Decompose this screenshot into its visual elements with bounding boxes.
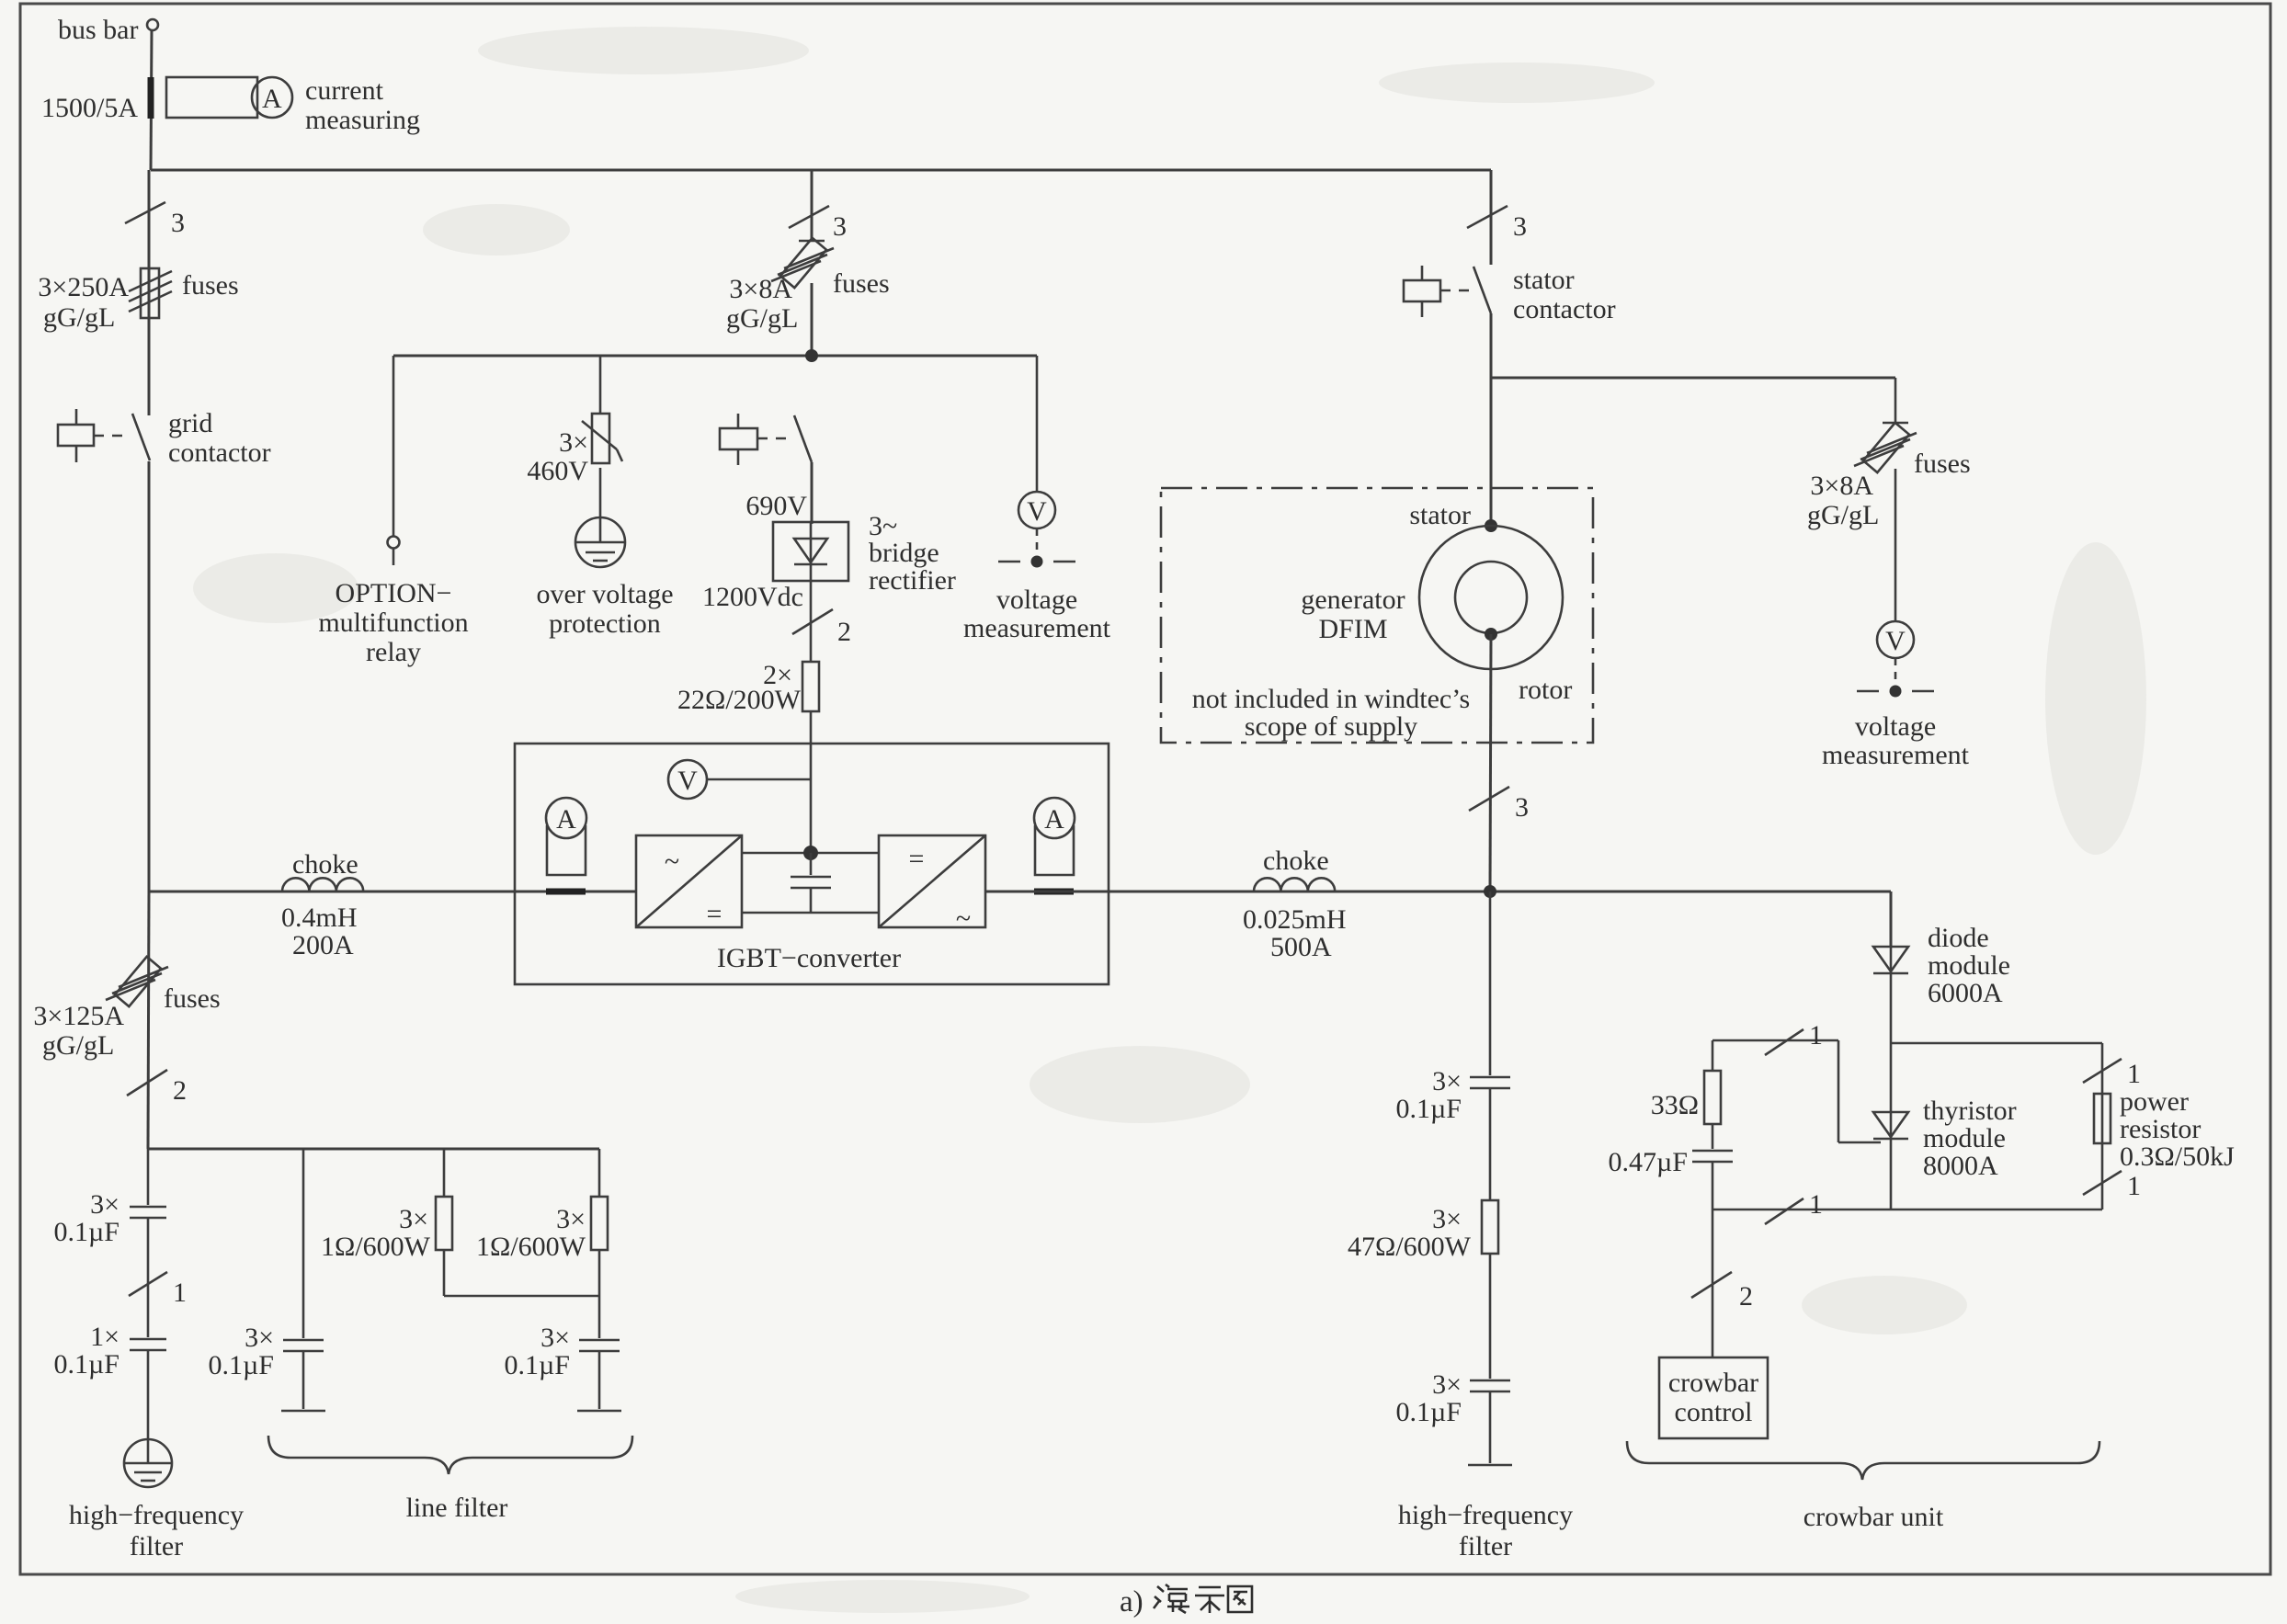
- svg-text:gG/gL: gG/gL: [726, 303, 798, 334]
- svg-text:control: control: [1675, 1397, 1753, 1427]
- power resistor 0.3ohm/50kJ: [2083, 1043, 2235, 1209]
- svg-text:voltage: voltage: [996, 585, 1077, 615]
- svg-text:2: 2: [1739, 1281, 1753, 1312]
- svg-text:3×: 3×: [1432, 1204, 1462, 1234]
- 3-phase slash marker (middle feeder): [789, 206, 847, 242]
- fuse 3x8A gG/gL (right): [1807, 423, 1971, 530]
- svg-text:V: V: [1885, 626, 1906, 656]
- svg-text:200A: 200A: [292, 930, 354, 960]
- svg-text:3×250A: 3×250A: [38, 272, 129, 302]
- capacitor 3x0.1uF (line filter left leg): [209, 1149, 324, 1409]
- 3-phase slash marker (left feeder): [125, 202, 185, 238]
- 2-phase slash marker (filter feed): [127, 1070, 187, 1106]
- wire fuse to sub-bus: [811, 283, 814, 356]
- svg-text:500A: 500A: [1270, 932, 1332, 962]
- resistor 33ohm: [1651, 1040, 1721, 1124]
- wire stator feeder drop: [1490, 170, 1493, 265]
- node bus bar: [58, 15, 158, 45]
- svg-text:0.1µF: 0.1µF: [54, 1217, 119, 1247]
- svg-text:grid: grid: [168, 408, 212, 438]
- voltmeter V (dc link): [668, 760, 811, 799]
- brace crowbar unit: [1627, 1441, 2099, 1532]
- svg-text:3: 3: [171, 208, 185, 238]
- svg-text:1200Vdc: 1200Vdc: [702, 582, 803, 612]
- voltage measurement tap (rotor feeder): [1822, 469, 1970, 770]
- svg-text:A: A: [1044, 804, 1064, 835]
- svg-text:0.1µF: 0.1µF: [1396, 1094, 1462, 1124]
- svg-text:1×: 1×: [90, 1322, 119, 1352]
- caption: [1120, 1584, 1252, 1618]
- svg-text:DFIM: DFIM: [1318, 614, 1387, 644]
- wire gate link (33ohm branch to thyristor): [1712, 1040, 1881, 1142]
- svg-text:voltage: voltage: [1855, 711, 1936, 742]
- svg-text:V: V: [677, 766, 698, 796]
- svg-text:fuses: fuses: [182, 270, 239, 301]
- svg-text:~: ~: [956, 903, 971, 934]
- capacitor 1x0.1uF (HF filter bottom): [54, 1322, 166, 1439]
- current transformer 1500/5A: [41, 75, 420, 135]
- svg-text:1: 1: [2127, 1059, 2141, 1089]
- varistor 3x 460V: [527, 356, 622, 486]
- junction sub-bus: [805, 349, 818, 362]
- svg-text:3: 3: [833, 211, 847, 242]
- resistor 2x 22ohm/200W: [677, 660, 819, 854]
- svg-text:=: =: [909, 844, 925, 874]
- wire sub-bus: [393, 355, 1037, 358]
- wire fuse drop (right): [1894, 378, 1897, 423]
- svg-text:IGBT−converter: IGBT−converter: [717, 943, 901, 973]
- svg-text:bridge: bridge: [869, 538, 939, 568]
- svg-text:fuses: fuses: [833, 268, 890, 299]
- choke 0.025mH 500A: [1243, 846, 1347, 962]
- fuse 3x8A gG/gL (middle): [726, 238, 890, 334]
- ammeter A (grid side): [546, 798, 586, 891]
- voltage measurement tap (dc feeder): [963, 356, 1111, 643]
- svg-text:6000A: 6000A: [1928, 978, 2003, 1008]
- svg-text:3×: 3×: [540, 1323, 570, 1353]
- generator enclosure (dash-dot box): [1161, 488, 1593, 743]
- fuse 3x250A gG/gL: [38, 268, 238, 333]
- 3-phase slash marker (stator feeder): [1467, 206, 1527, 242]
- svg-text:3×8A: 3×8A: [1810, 471, 1873, 501]
- svg-text:protection: protection: [549, 608, 661, 639]
- 1-phase slash marker (bottom rail): [1765, 1189, 1823, 1224]
- svg-text:not included in windtec’s: not included in windtec’s: [1192, 684, 1470, 714]
- svg-text:A: A: [262, 84, 282, 114]
- svg-text:rectifier: rectifier: [869, 565, 956, 596]
- svg-text:diode: diode: [1928, 923, 1989, 953]
- svg-text:47Ω/600W: 47Ω/600W: [1348, 1232, 1472, 1262]
- wire branch to rotor-voltage fuses: [1491, 377, 1895, 380]
- bridge rectifier 690V / 1200Vdc: [702, 491, 956, 612]
- 2-phase slash marker (dc link): [792, 581, 851, 662]
- svg-text:1Ω/600W: 1Ω/600W: [476, 1232, 586, 1262]
- svg-text:3×: 3×: [1432, 1369, 1462, 1400]
- grid contactor: [58, 408, 271, 468]
- wire left vertical upper: [148, 170, 151, 891]
- svg-text:high−frequency: high−frequency: [1398, 1500, 1573, 1530]
- svg-text:current: current: [305, 75, 384, 106]
- svg-text:1: 1: [2127, 1171, 2141, 1201]
- wire lower bus right: [985, 891, 1891, 893]
- svg-text:gG/gL: gG/gL: [43, 302, 115, 333]
- svg-text:460V: 460V: [527, 456, 588, 486]
- ground earth symbol (over voltage protection): [536, 468, 673, 639]
- 2-phase slash marker (crowbar control): [1691, 1209, 1753, 1357]
- svg-text:generator: generator: [1301, 585, 1405, 615]
- svg-text:module: module: [1928, 950, 2010, 981]
- svg-text:3×: 3×: [556, 1204, 586, 1234]
- svg-text:contactor: contactor: [1513, 294, 1616, 324]
- brace line filter: [268, 1436, 632, 1523]
- diode module 6000A: [1873, 923, 2010, 1043]
- svg-text:1Ω/600W: 1Ω/600W: [321, 1232, 431, 1262]
- svg-text:0.1µF: 0.1µF: [505, 1350, 570, 1380]
- svg-text:high−frequency: high−frequency: [69, 1500, 244, 1530]
- wire crowbar bottom rail: [1712, 1209, 2102, 1211]
- svg-text:line filter: line filter: [406, 1493, 508, 1523]
- wire dc link top: [742, 852, 879, 855]
- wire main bus: [151, 169, 1491, 172]
- svg-text:crowbar: crowbar: [1668, 1368, 1758, 1398]
- wire middle feeder drop: [811, 170, 814, 241]
- svg-text:0.1µF: 0.1µF: [209, 1350, 274, 1380]
- capacitor 3x0.1uF (HF filter top): [54, 1149, 166, 1247]
- svg-text:filter: filter: [1459, 1531, 1512, 1562]
- capacitor 0.47uF: [1609, 1124, 1733, 1209]
- svg-text:fuses: fuses: [1914, 449, 1971, 479]
- crowbar control box: [1659, 1357, 1768, 1438]
- svg-text:1: 1: [1809, 1189, 1823, 1220]
- thyristor module 8000A: [1873, 1096, 2017, 1181]
- wire contactor to rectifier: [811, 462, 814, 524]
- junction rotor bus: [1484, 885, 1496, 898]
- svg-text:3×: 3×: [90, 1189, 119, 1220]
- svg-text:stator: stator: [1513, 265, 1575, 295]
- IGBT-converter box: [515, 744, 1109, 984]
- capacitor 3x0.1uF (line filter right leg): [505, 1296, 620, 1409]
- wire lower bus left: [149, 891, 636, 893]
- 1-phase slash marker (gate link): [1765, 1020, 1823, 1055]
- svg-text:0.1µF: 0.1µF: [54, 1349, 119, 1380]
- svg-text:8000A: 8000A: [1923, 1151, 1998, 1181]
- svg-text:scope of supply: scope of supply: [1245, 711, 1417, 742]
- resistor 3x 47ohm/600W: [1348, 1088, 1498, 1379]
- wire contactor to stator: [1490, 313, 1493, 520]
- svg-text:rotor: rotor: [1519, 675, 1572, 705]
- svg-text:3×: 3×: [1432, 1066, 1462, 1096]
- svg-text:choke: choke: [292, 849, 358, 880]
- converter bridge (grid side): [636, 835, 742, 929]
- svg-text:0.025mH: 0.025mH: [1243, 904, 1347, 935]
- junction dc link: [803, 846, 818, 860]
- choke 0.4mH 200A: [281, 849, 363, 960]
- svg-text:1: 1: [1809, 1020, 1823, 1050]
- resistor 3x 1ohm/600W (right): [476, 1149, 608, 1296]
- svg-text:33Ω: 33Ω: [1651, 1090, 1699, 1120]
- svg-text:stator: stator: [1409, 500, 1471, 530]
- ground bar (line filter right leg): [577, 1410, 621, 1413]
- svg-text:thyristor: thyristor: [1923, 1096, 2017, 1126]
- svg-text:1500/5A: 1500/5A: [41, 93, 138, 123]
- dc link capacitor: [791, 853, 831, 913]
- rectifier contactor: [720, 414, 824, 465]
- ground bar (line filter left leg): [281, 1410, 325, 1413]
- wire left vertical lower: [148, 891, 149, 1149]
- svg-text:bus bar: bus bar: [58, 15, 138, 45]
- svg-text:3×: 3×: [245, 1323, 274, 1353]
- resistor 3x 1ohm/600W (left): [321, 1149, 452, 1296]
- svg-text:2: 2: [837, 617, 851, 647]
- svg-text:a): a): [1120, 1585, 1143, 1618]
- fuse 3x125A gG/gL: [33, 957, 220, 1061]
- svg-text:A: A: [556, 804, 576, 835]
- wire crowbar top rail: [1891, 1042, 2102, 1045]
- 1-phase slash marker: [129, 1218, 187, 1337]
- svg-text:filter: filter: [130, 1531, 183, 1562]
- svg-text:=: =: [707, 899, 723, 929]
- svg-text:~: ~: [665, 846, 679, 877]
- wire crowbar feeder: [1890, 891, 1893, 947]
- svg-text:0.3Ω/50kJ: 0.3Ω/50kJ: [2120, 1141, 2235, 1172]
- wire filter bus: [148, 1148, 599, 1151]
- wire dc link bottom: [742, 912, 879, 914]
- svg-text:3×: 3×: [399, 1204, 428, 1234]
- svg-text:2: 2: [173, 1075, 187, 1106]
- stator contactor: [1404, 265, 1616, 324]
- svg-text:3×125A: 3×125A: [33, 1001, 124, 1031]
- svg-text:over voltage: over voltage: [536, 579, 673, 609]
- ground bar (HF filter 2): [1398, 1465, 1573, 1562]
- svg-text:690V: 690V: [745, 491, 807, 521]
- svg-text:3×8A: 3×8A: [729, 274, 792, 304]
- svg-text:gG/gL: gG/gL: [42, 1030, 114, 1061]
- 3-phase slash marker (rotor): [1469, 787, 1529, 823]
- node rotor: [1485, 628, 1497, 641]
- svg-text:contactor: contactor: [168, 437, 271, 468]
- svg-text:22Ω/200W: 22Ω/200W: [677, 685, 802, 715]
- wire thyristor leg: [1890, 1043, 1893, 1209]
- node stator: [1485, 519, 1497, 532]
- svg-text:measuring: measuring: [305, 105, 420, 135]
- svg-text:0.1µF: 0.1µF: [1396, 1397, 1462, 1427]
- svg-text:3×: 3×: [559, 427, 588, 458]
- svg-text:fuses: fuses: [164, 983, 221, 1014]
- svg-text:resistor: resistor: [2120, 1114, 2201, 1144]
- svg-text:crowbar unit: crowbar unit: [1803, 1502, 1944, 1532]
- generator DFIM: [1192, 500, 1573, 742]
- svg-text:1: 1: [173, 1278, 187, 1308]
- capacitor 3x0.1uF (HF filter 2 top): [1396, 891, 1510, 1124]
- svg-text:choke: choke: [1263, 846, 1329, 876]
- wire rotor drop: [1490, 634, 1491, 891]
- OPTION multifunction relay tap: [318, 356, 468, 667]
- svg-text:OPTION−: OPTION−: [336, 578, 452, 608]
- svg-text:V: V: [1027, 496, 1047, 527]
- svg-text:0.4mH: 0.4mH: [281, 903, 358, 933]
- svg-text:measurement: measurement: [1822, 740, 1970, 770]
- svg-text:power: power: [2120, 1086, 2189, 1117]
- wire joining resistor legs: [444, 1295, 599, 1298]
- svg-text:relay: relay: [366, 637, 421, 667]
- svg-text:3: 3: [1515, 792, 1529, 823]
- ammeter A (rotor side): [1034, 798, 1075, 891]
- svg-text:measurement: measurement: [963, 613, 1111, 643]
- svg-text:multifunction: multifunction: [318, 608, 468, 638]
- capacitor 3x0.1uF (HF filter 2 bottom): [1396, 1369, 1510, 1463]
- svg-text:3: 3: [1513, 211, 1527, 242]
- svg-text:0.47µF: 0.47µF: [1609, 1147, 1688, 1177]
- wire bus bar drop: [151, 30, 152, 170]
- svg-text:module: module: [1923, 1123, 2006, 1153]
- converter bridge (rotor side): [879, 835, 985, 934]
- svg-text:gG/gL: gG/gL: [1807, 500, 1879, 530]
- ground earth symbol (high-frequency filter): [69, 1439, 244, 1562]
